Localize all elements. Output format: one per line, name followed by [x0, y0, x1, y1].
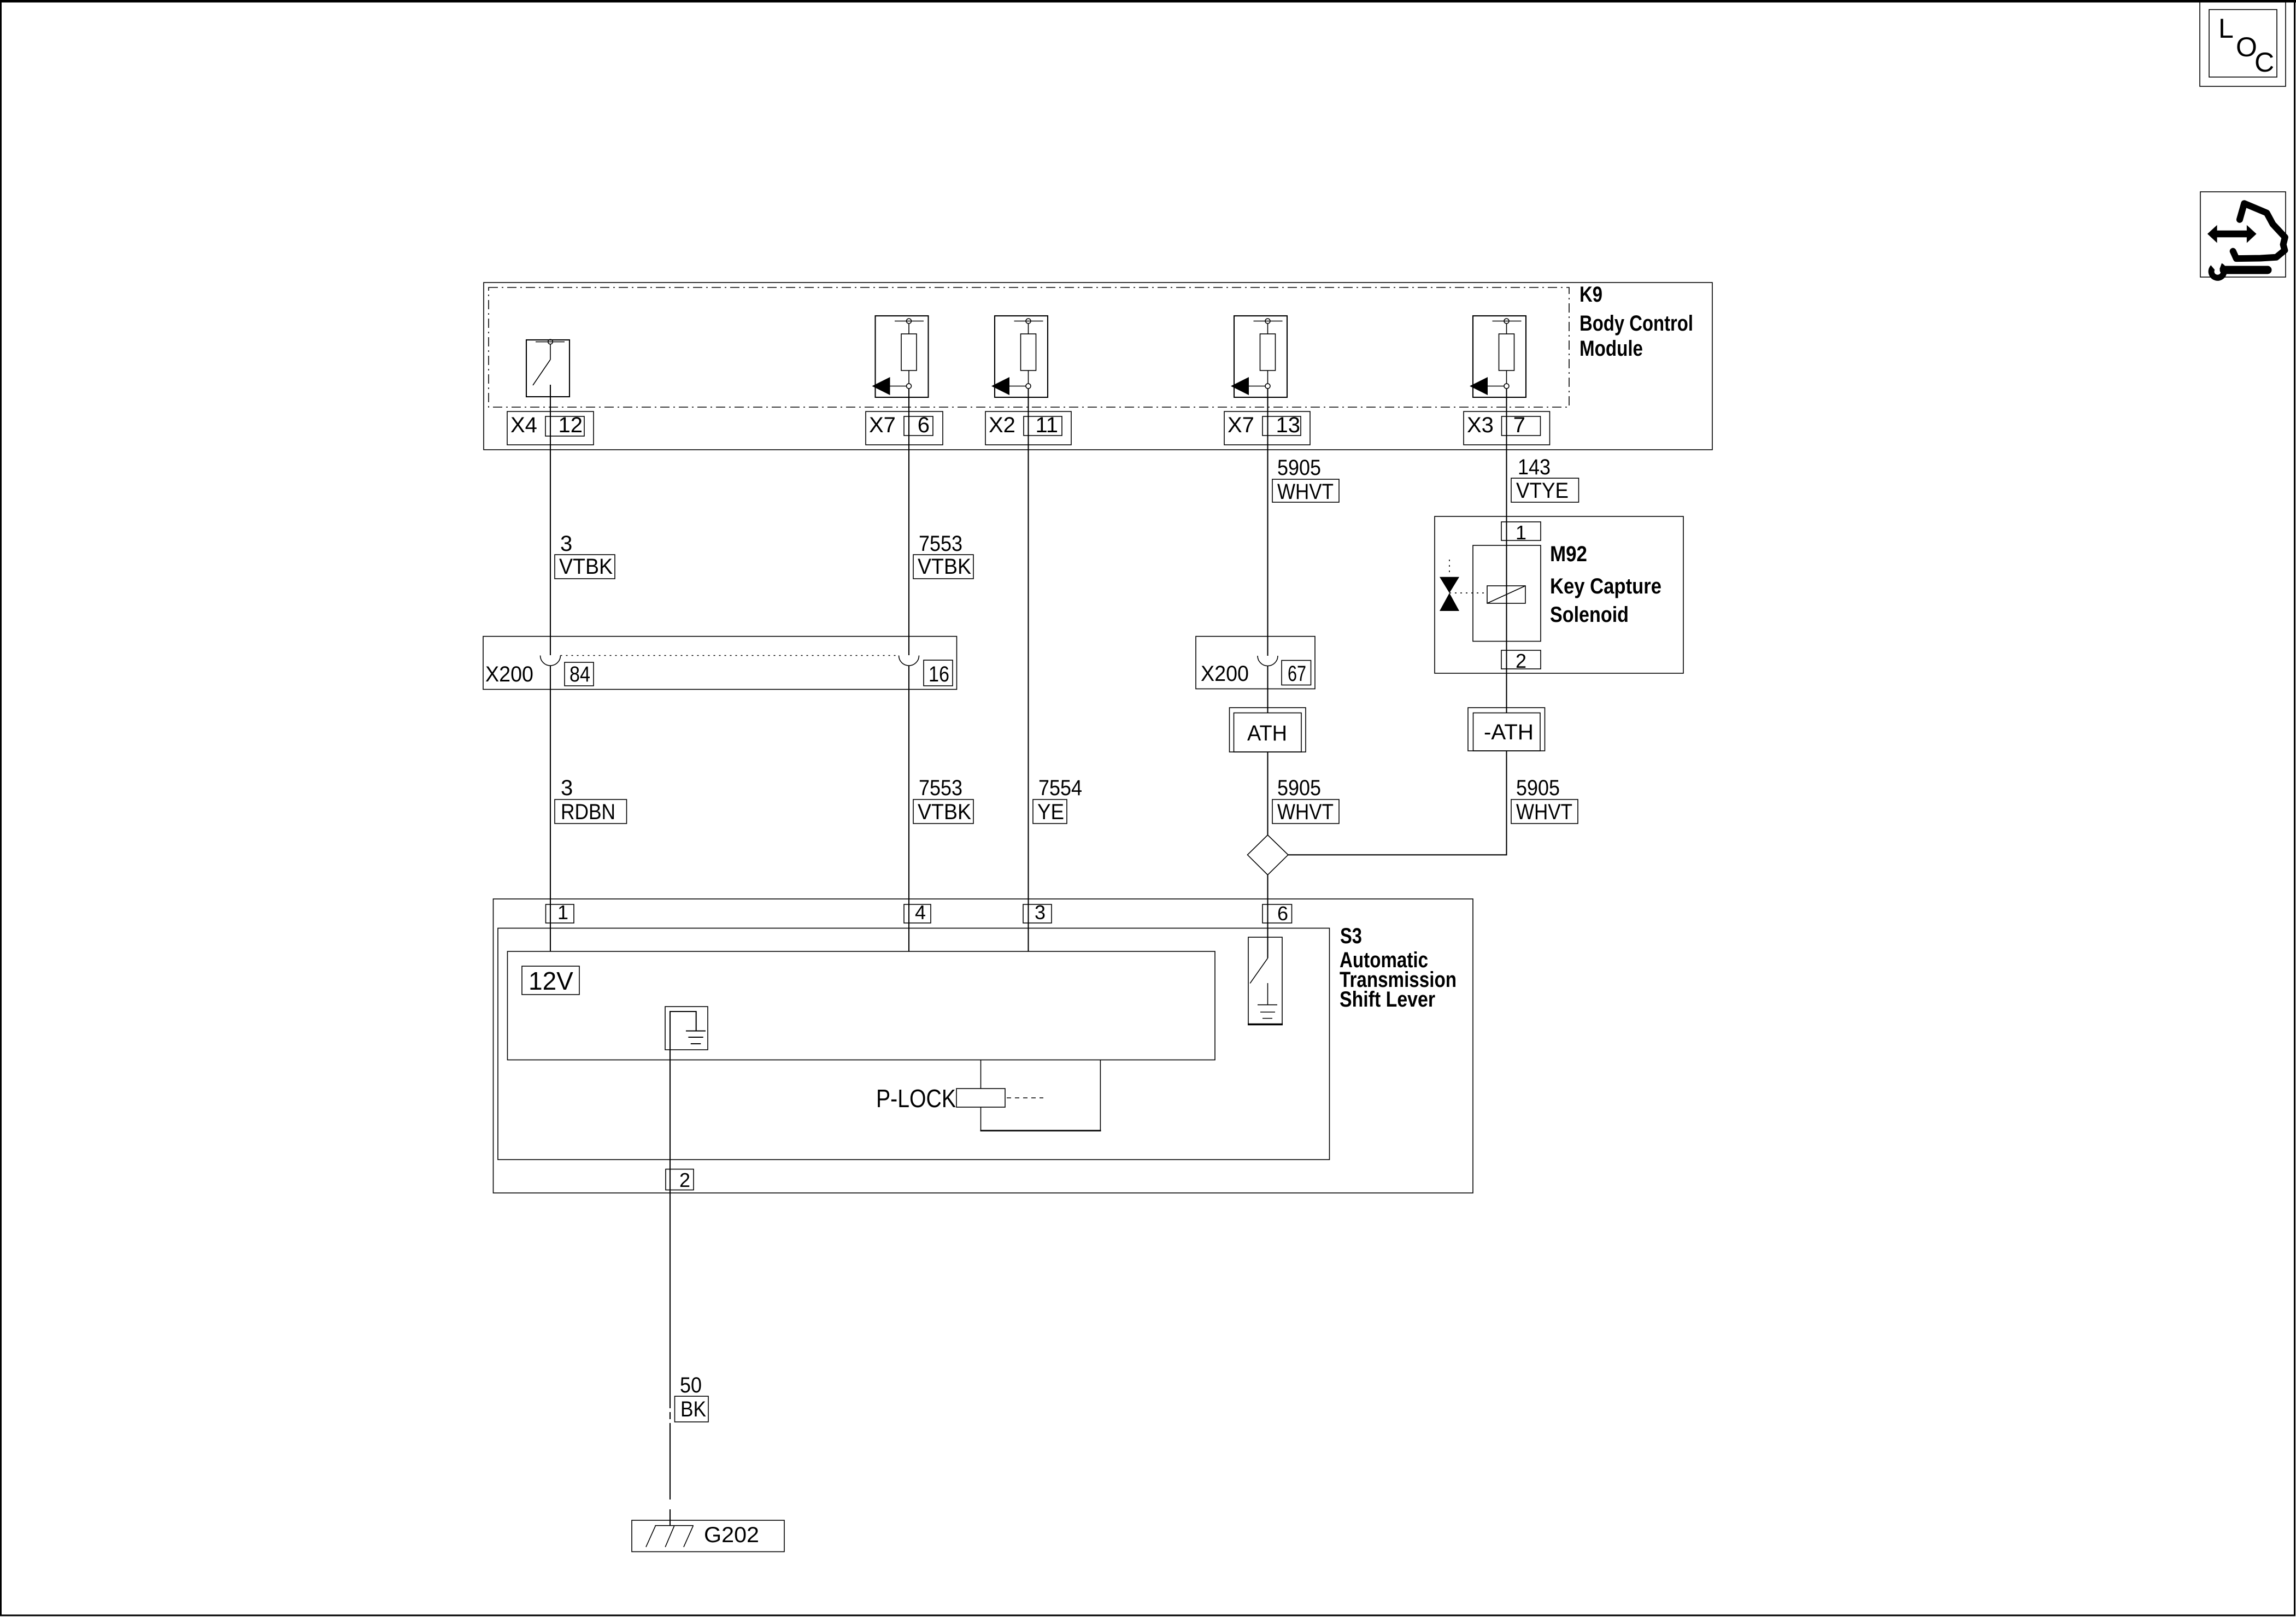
S3 pin 4 box [904, 901, 931, 924]
connector pin box X4 12 [507, 411, 594, 445]
svg-text:5905: 5905 [1277, 776, 1321, 800]
svg-text:2: 2 [1516, 650, 1526, 672]
svg-text:VTBK: VTBK [918, 555, 971, 579]
wire label 3 RDBN [555, 776, 627, 824]
inline connector X200 84-16 [483, 637, 957, 690]
svg-text:84: 84 [569, 662, 590, 686]
svg-text:Body Control: Body Control [1579, 311, 1693, 336]
M92 mechanical linkage (bowtie) [1440, 560, 1487, 611]
wire from K9 X4-12 to S3 pin 1 [550, 385, 551, 951]
svg-text:1: 1 [1516, 521, 1526, 544]
svg-text:RDBN: RDBN [561, 800, 615, 824]
svg-text:X4: X4 [510, 413, 537, 437]
wire label 7553 VTBK (upper) [913, 532, 973, 579]
connector pin box X2 11 [985, 411, 1071, 445]
S3 pin 1 box [546, 901, 574, 924]
svg-text:1: 1 [557, 901, 568, 924]
svg-text:50: 50 [680, 1373, 702, 1397]
wire label 5905 WHVT (lower right) [1511, 776, 1578, 824]
svg-text:G202: G202 [704, 1523, 759, 1547]
M92 solenoid symbol [1473, 545, 1541, 642]
svg-text:16: 16 [929, 662, 949, 686]
ground G202 [632, 1520, 784, 1552]
svg-text:3: 3 [1035, 901, 1046, 924]
driver/resistor symbol with arrow (X2-11) [991, 316, 1048, 397]
svg-text:BK: BK [680, 1397, 706, 1421]
svg-text:Solenoid: Solenoid [1550, 603, 1629, 627]
P-LOCK actuator [876, 1060, 1101, 1131]
ground wire from S3 pin 2 to G202 [670, 1016, 671, 1526]
S3 pin 3 box [1023, 901, 1052, 924]
svg-text:7553: 7553 [919, 776, 962, 800]
svg-text:X200: X200 [1201, 662, 1249, 686]
svg-text:VTBK: VTBK [918, 800, 971, 824]
S3 inner boundary box [498, 928, 1330, 1160]
svg-text:143: 143 [1518, 455, 1551, 479]
wire label 143 VTYE [1511, 455, 1579, 503]
internal ground symbol in S3 [665, 1007, 708, 1050]
svg-text:Key Capture: Key Capture [1550, 574, 1661, 598]
svg-text:C: C [2254, 47, 2274, 78]
wire from K9 X2-11 to S3 pin 3 [1027, 389, 1029, 951]
svg-text:7553: 7553 [919, 532, 962, 556]
svg-text:7: 7 [1513, 413, 1525, 437]
svg-text:Shift Lever: Shift Lever [1340, 987, 1435, 1012]
svg-text:S3: S3 [1340, 924, 1362, 948]
K9 dash-dot inner boundary [489, 287, 1569, 407]
svg-text:WHVT: WHVT [1516, 800, 1572, 824]
svg-text:5905: 5905 [1277, 456, 1321, 480]
S3 label text [1340, 924, 1457, 1012]
M92 pin 1 box [1501, 521, 1541, 544]
wire from K9 X7-13 through ATH to splice and S3 pin 6 [1267, 389, 1268, 958]
M92 Key Capture Solenoid box [1435, 516, 1683, 673]
wire from K9 X3-7 through M92 and -ATH to splice [1288, 389, 1507, 855]
svg-text:M92: M92 [1550, 542, 1587, 566]
driver/resistor symbol with arrow (X7-6) [872, 316, 929, 397]
connector pin box X7 6 [866, 411, 943, 445]
svg-text:WHVT: WHVT [1277, 800, 1334, 824]
svg-text:-ATH: -ATH [1484, 720, 1534, 744]
LOC reference box [2200, 2, 2286, 86]
S3 pin 6 box [1262, 902, 1292, 925]
driver/resistor symbol with arrow (X7-13) [1231, 316, 1287, 397]
svg-text:11: 11 [1035, 413, 1058, 437]
12V label [522, 966, 579, 995]
svg-text:2: 2 [679, 1169, 690, 1191]
wire label 5905 WHVT (lower left) [1272, 776, 1339, 824]
svg-text:K9: K9 [1579, 283, 1602, 307]
wire label 50 BK [675, 1373, 709, 1422]
diagnostic / data link icon [2200, 192, 2286, 281]
svg-text:P-LOCK: P-LOCK [876, 1084, 956, 1113]
K9 label text [1579, 283, 1693, 361]
M92 pin 2 box [1501, 650, 1541, 672]
svg-text:VTYE: VTYE [1516, 479, 1569, 503]
splice diamond [1248, 835, 1288, 875]
inline connector X200 67 [1196, 637, 1315, 689]
svg-text:X2: X2 [989, 413, 1015, 437]
switch symbol inside K9 (X4-12 output) [526, 339, 569, 397]
svg-text:5905: 5905 [1516, 776, 1560, 800]
svg-text:YE: YE [1037, 800, 1064, 824]
park switch to ground inside S3 [1248, 937, 1283, 1025]
svg-text:L: L [2218, 13, 2234, 44]
svg-text:13: 13 [1276, 413, 1301, 437]
harness label ATH [1230, 708, 1306, 752]
svg-text:12V: 12V [529, 967, 573, 995]
connector pin box X3 7 [1464, 411, 1550, 445]
svg-text:WHVT: WHVT [1277, 480, 1334, 504]
svg-text:X7: X7 [869, 413, 896, 437]
connector pin box X7 13 [1224, 411, 1310, 445]
svg-text:6: 6 [918, 413, 930, 437]
wire label 7553 VTBK (lower) [913, 776, 973, 824]
svg-text:67: 67 [1288, 662, 1306, 686]
wire from K9 X7-6 to S3 pin 4 [908, 389, 909, 951]
wire label 3 VTBK (upper, circuit 3) [555, 532, 615, 579]
svg-text:7554: 7554 [1038, 776, 1082, 800]
S3 Automatic Transmission Shift Lever outer box [494, 899, 1473, 1193]
svg-text:Module: Module [1579, 337, 1643, 361]
svg-text:X3: X3 [1467, 413, 1494, 437]
S3 pin 2 box [666, 1169, 694, 1191]
svg-text:X200: X200 [485, 662, 533, 686]
harness label -ATH [1468, 708, 1545, 751]
svg-text:3: 3 [560, 532, 572, 556]
svg-text:12: 12 [559, 413, 583, 437]
svg-text:4: 4 [915, 901, 926, 924]
S3 12V supply sub-box [508, 951, 1215, 1060]
svg-text:VTBK: VTBK [559, 555, 613, 579]
M92 label text [1550, 542, 1661, 627]
driver/resistor symbol with arrow (X3-7) [1470, 316, 1526, 397]
wire label 7554 YE [1033, 776, 1082, 824]
K9 Body Control Module outer box [484, 283, 1712, 450]
wire label 5905 WHVT (upper) [1272, 456, 1339, 504]
svg-text:6: 6 [1277, 902, 1288, 925]
svg-text:3: 3 [561, 776, 573, 800]
svg-text:ATH: ATH [1247, 721, 1287, 745]
svg-text:X7: X7 [1228, 413, 1254, 437]
